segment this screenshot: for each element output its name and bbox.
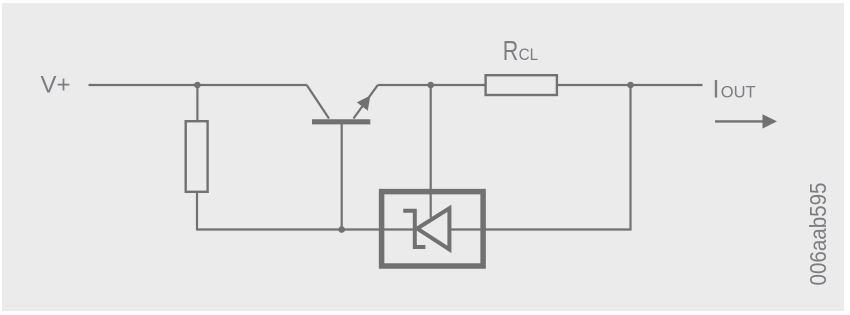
svg-text:006aab595: 006aab595 xyxy=(805,183,831,286)
Iout arrowhead xyxy=(763,114,778,128)
wire diode box to right rail xyxy=(449,85,630,230)
node C junction dot xyxy=(627,82,634,89)
wire node B down to diode xyxy=(430,85,432,218)
resistor R1 xyxy=(186,121,208,192)
wire collector diagonal xyxy=(307,85,329,119)
wire V+ to transistor collector corner xyxy=(89,84,307,86)
wire transistor base down xyxy=(341,123,343,230)
diode box xyxy=(382,192,484,266)
resistor RCL xyxy=(486,75,557,95)
wire emitter to RCL xyxy=(378,84,485,86)
transistor Q1 base bar xyxy=(312,119,370,124)
zener diode D1 cathode bar xyxy=(403,211,425,247)
zener diode D1 triangle xyxy=(417,208,449,249)
node A junction dot xyxy=(194,82,201,89)
svg-text:CL: CL xyxy=(519,45,539,64)
wire RCL to Iout xyxy=(558,84,703,86)
wire emitter diagonal xyxy=(354,85,378,119)
svg-text:R: R xyxy=(503,35,519,66)
Iout arrow line xyxy=(715,120,764,122)
node D junction dot xyxy=(338,226,345,233)
svg-text:V+: V+ xyxy=(41,71,71,98)
wire R1 bottom to diode box xyxy=(197,192,415,230)
node B junction dot xyxy=(427,82,434,89)
transistor Q1 emitter arrow xyxy=(357,96,371,111)
wire node A down to R1 xyxy=(196,85,198,121)
